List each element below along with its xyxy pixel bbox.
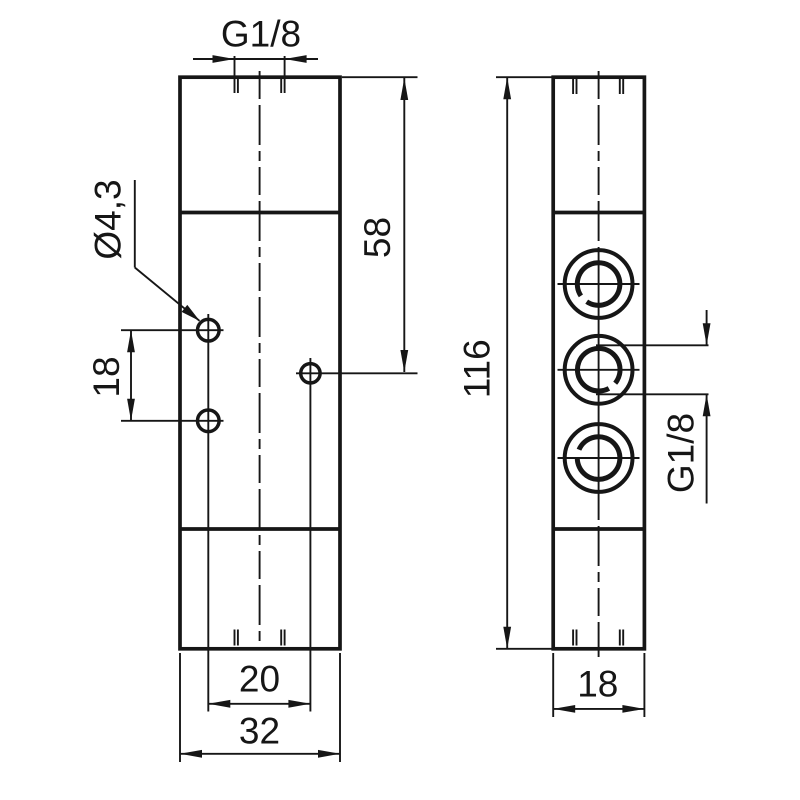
svg-text:20: 20 xyxy=(239,659,280,700)
svg-text:18: 18 xyxy=(86,356,127,397)
svg-text:32: 32 xyxy=(239,711,280,752)
svg-text:G1/8: G1/8 xyxy=(221,14,301,55)
svg-text:116: 116 xyxy=(457,339,498,398)
svg-text:G1/8: G1/8 xyxy=(661,413,702,493)
svg-text:18: 18 xyxy=(577,664,618,705)
svg-text:58: 58 xyxy=(357,217,398,258)
svg-text:Ø4,3: Ø4,3 xyxy=(88,179,129,259)
